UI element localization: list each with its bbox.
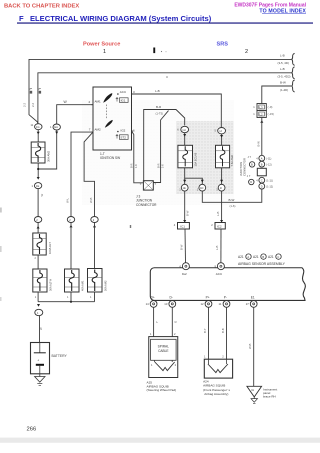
svg-text:IH: IH <box>251 388 254 392</box>
connector chain1 lower oval <box>34 217 41 223</box>
svg-text:W-B: W-B <box>89 197 93 203</box>
junction connector stack circle A <box>256 155 271 161</box>
svg-text:CONNECTOR: CONNECTOR <box>136 203 157 207</box>
node battery bus junction <box>70 301 72 303</box>
svg-text:( -9): ( -9) <box>268 105 273 109</box>
arrow up into L2 <box>260 120 263 123</box>
svg-text:W: W <box>64 100 68 104</box>
svg-text:(1-4D): (1-4D) <box>280 88 288 92</box>
splice symbol on left wire 1 <box>29 88 32 89</box>
arrow into H-fuse <box>37 132 40 135</box>
svg-text:+: + <box>37 359 39 363</box>
bus line 2 <box>38 73 291 124</box>
svg-text:A21: A21 <box>253 255 259 259</box>
junction connector stack circle B <box>259 161 272 167</box>
J/B output circle 1D <box>197 184 206 191</box>
bus 3 right continuation hook <box>292 80 295 92</box>
splice symbol on left wire 2 <box>38 88 41 89</box>
connector 1H into J/B <box>177 126 188 132</box>
svg-text:brace RH: brace RH <box>263 395 276 399</box>
ignition contact 2 (AM2) <box>105 120 113 128</box>
wire 1H to fuse ECU-B <box>184 133 186 146</box>
svg-text:14: 14 <box>146 302 150 306</box>
svg-text:B: B <box>262 255 264 259</box>
svg-text:L-B: L-B <box>216 212 220 216</box>
svg-text:A: A <box>247 255 249 259</box>
svg-text:2: 2 <box>222 355 224 359</box>
svg-text:15A ECU-B: 15A ECU-B <box>193 153 197 167</box>
arrow into battery connector <box>37 304 40 307</box>
svg-text:Y: Y <box>155 321 159 323</box>
svg-text:30A ALT-H: 30A ALT-H <box>49 279 53 291</box>
node A junction dot <box>37 168 39 170</box>
svg-text:C: C <box>277 255 279 259</box>
svg-text:IC2: IC2 <box>217 225 222 229</box>
svg-text:BACK TO CHAPTER INDEX: BACK TO CHAPTER INDEX <box>4 4 79 10</box>
svg-text:1E: 1E <box>183 186 186 190</box>
svg-text:SPIRAL: SPIRAL <box>158 344 170 348</box>
bottom scan shadow strip <box>0 438 320 443</box>
bus line 1 <box>29 59 291 123</box>
svg-text:AM1: AM1 <box>95 100 102 104</box>
wire 1E down to connector IC1 <box>184 191 186 222</box>
svg-text:1-6: 1-6 <box>161 164 165 168</box>
ignition contact 1 (AM1) <box>103 93 112 103</box>
connector chain3 oval <box>91 217 98 223</box>
connector L3 <box>253 104 272 111</box>
faint scan speckle <box>82 100 234 205</box>
wire 1G to H-fuse <box>37 130 39 142</box>
svg-text:L2: L2 <box>260 113 264 117</box>
svg-text:2: 2 <box>175 363 177 367</box>
wire B-W lower run <box>202 189 261 202</box>
svg-text:1E: 1E <box>36 184 39 188</box>
svg-text:A: A <box>261 156 263 160</box>
wire E1 to ground <box>253 307 255 386</box>
svg-text:12: 12 <box>201 302 205 306</box>
svg-text:F ELECTRICAL WIRING DIAGRAM: F ELECTRICAL WIRING DIAGRAM (System Circ… <box>19 14 212 23</box>
spiral cable / squib A25 outer box <box>149 337 178 378</box>
svg-text:EA: EA <box>54 125 58 129</box>
svg-text:1: 1 <box>103 49 106 55</box>
svg-text:AIRBAG SENSOR ASSEMBLY: AIRBAG SENSOR ASSEMBLY <box>238 262 286 266</box>
svg-text:1-6: 1-6 <box>134 164 138 168</box>
fuse 15A ECU-B <box>178 145 197 168</box>
svg-text:(1-T5): (1-T5) <box>156 112 164 116</box>
svg-text:27: 27 <box>246 302 250 306</box>
svg-text:B-W: B-W <box>229 198 235 202</box>
svg-text:D-: D- <box>170 296 173 300</box>
connector EA <box>50 124 60 130</box>
svg-text:J 7: J 7 <box>247 174 251 178</box>
wire chain1 W <box>37 189 39 217</box>
wire between chain1 fuses <box>37 255 39 269</box>
svg-text:G: G <box>174 321 178 323</box>
svg-text:(3-5, 4D2): (3-5, 4D2) <box>278 75 291 79</box>
svg-text:1: 1 <box>204 355 206 359</box>
bus 2 right continuation hook <box>292 67 295 79</box>
svg-text:B-W: B-W <box>186 210 190 216</box>
J7 circle D <box>247 174 254 185</box>
svg-text:E1: E1 <box>251 296 255 300</box>
svg-text:(-12): (-12) <box>266 164 271 167</box>
fuse 7.5A AM2 <box>216 145 234 168</box>
arrow below EA <box>55 132 58 135</box>
wire D- to spiral cable <box>171 307 173 336</box>
svg-text:CONNECTOR: CONNECTOR <box>243 158 247 176</box>
fusible link 40A AM1 <box>65 269 85 292</box>
svg-text:B-Y: B-Y <box>203 328 207 333</box>
arrow into chain2 oval <box>70 225 73 228</box>
connector 1E <box>32 183 42 189</box>
wire chain2 to fuse <box>70 223 72 270</box>
svg-text:1D: 1D <box>200 186 203 190</box>
wire chain3 to fuse <box>94 223 96 269</box>
svg-text:2-2: 2-2 <box>31 103 35 107</box>
svg-text:W-B: W-B <box>248 343 252 349</box>
junction connector stack circle D <box>259 183 273 189</box>
svg-text:B-B: B-B <box>221 328 225 333</box>
svg-text:P-: P- <box>224 296 227 300</box>
wires from fuse ECU-B to output circles <box>184 168 186 185</box>
connector L2 <box>253 111 274 118</box>
ignition switch box 1-T <box>89 87 136 150</box>
svg-text:B-W: B-W <box>256 141 260 147</box>
J7 circle B <box>248 155 255 167</box>
wire IC2 to ACC pin <box>220 229 222 263</box>
junction connector stack box <box>257 168 266 176</box>
fusible link 50A AM2 <box>88 269 108 293</box>
wire P+ to squib A24 <box>208 307 210 359</box>
svg-text:(-11): (-11) <box>266 158 271 161</box>
J/B output circle 1E <box>179 184 188 191</box>
svg-text:2: 2 <box>35 257 37 260</box>
airbag sensor assembly box <box>150 268 305 301</box>
wire B-R with label <box>144 110 185 181</box>
wire J3 branch up <box>153 111 168 183</box>
svg-text:B-W: B-W <box>179 244 183 250</box>
svg-text:J 7: J 7 <box>248 155 252 159</box>
IG1 terminal box inside ignition SW <box>116 93 128 102</box>
svg-text:1G: 1G <box>36 125 39 129</box>
svg-text:P+: P+ <box>206 296 210 300</box>
J/B No.2 shaded block <box>176 121 234 194</box>
zone marker bar <box>153 48 155 54</box>
svg-text:IG1: IG1 <box>121 99 126 103</box>
fusible link 30A AM2 H-fuse <box>31 142 50 163</box>
spiral cable inner box <box>151 339 177 360</box>
svg-text:IC1: IC1 <box>180 225 185 229</box>
svg-text:B: B <box>261 162 263 166</box>
squib element A25 <box>151 360 177 370</box>
tiny scan artifacts <box>166 76 168 78</box>
svg-text:A21: A21 <box>268 255 274 259</box>
squib A24 box <box>204 359 232 378</box>
sensor box bottom pin E1 <box>246 296 257 308</box>
svg-text:1: 1 <box>35 295 37 299</box>
ground symbol below triangle <box>251 397 258 404</box>
svg-text:2: 2 <box>211 223 213 227</box>
wire to battery <box>39 316 41 343</box>
svg-text:B-R: B-R <box>130 163 134 168</box>
svg-text:1: 1 <box>90 295 92 299</box>
svg-text:(1-12): (1-12) <box>266 186 273 189</box>
fusible link ALT lower <box>33 269 53 292</box>
svg-text:40A AM1: 40A AM1 <box>81 280 85 291</box>
svg-text:L-B: L-B <box>280 54 285 58</box>
svg-text:AM2: AM2 <box>95 128 102 132</box>
wire AM2 to chain2 <box>71 132 93 217</box>
svg-text:1H: 1H <box>182 128 185 132</box>
wire and up-arrow into fuse 100A ALT <box>37 223 39 234</box>
connector 1J into J/B <box>215 128 226 134</box>
svg-text:L3: L3 <box>260 106 264 110</box>
svg-text:1: 1 <box>50 125 52 129</box>
svg-text:2: 2 <box>245 49 248 55</box>
svg-text:D: D <box>250 180 252 184</box>
arrow into connector 1E <box>37 177 40 180</box>
battery connector oval <box>35 309 43 315</box>
svg-text:ST2: ST2 <box>120 136 126 140</box>
svg-text:Airbag Assembly): Airbag Assembly) <box>204 392 228 396</box>
svg-text:B: B <box>251 163 253 167</box>
svg-text:1: 1 <box>67 295 69 299</box>
A21 connector codes <box>238 254 281 259</box>
svg-text:1I: 1I <box>220 186 222 190</box>
svg-text:D: D <box>261 184 263 188</box>
svg-text:2: 2 <box>174 332 176 336</box>
pin ACC on sensor box <box>215 263 225 277</box>
svg-text:(Steering Wheel Pad): (Steering Wheel Pad) <box>147 388 177 392</box>
svg-text:C: C <box>261 178 263 182</box>
svg-text:100A ALT: 100A ALT <box>48 242 52 254</box>
svg-text:1: 1 <box>150 332 152 336</box>
svg-text:IGNITION SW: IGNITION SW <box>100 156 120 160</box>
sensor box bottom pin D- <box>164 296 175 308</box>
svg-text:4: 4 <box>256 157 258 160</box>
wire P- to squib A24 <box>226 307 228 359</box>
wire 1I down to connector IC2 <box>221 191 223 222</box>
wire AM1 from ignition SW <box>57 105 93 124</box>
in-line connector IC1 <box>174 223 190 230</box>
pin ticks on ignition SW box <box>91 104 93 106</box>
wire to node A <box>37 163 39 178</box>
fusible link 100A ALT <box>33 233 52 255</box>
svg-text:11: 11 <box>219 302 222 306</box>
connector 1G <box>31 123 43 130</box>
wire 1J to fuse AM2 <box>221 134 223 145</box>
junction connector J3 <box>140 181 157 190</box>
wire IC1 to IG2 pin <box>184 229 187 263</box>
svg-text:4: 4 <box>256 179 258 182</box>
pin IG2 on sensor box <box>180 263 190 277</box>
svg-text:2-2: 2-2 <box>23 103 27 107</box>
connector chain2 oval <box>67 217 74 223</box>
wire EA down to junction <box>38 130 57 169</box>
svg-text:11: 11 <box>31 123 34 127</box>
svg-text:1: 1 <box>253 112 255 116</box>
svg-text:W: W <box>40 194 44 197</box>
svg-text:D+: D+ <box>151 296 155 300</box>
svg-text:W-L: W-L <box>65 197 69 203</box>
ground below battery <box>35 374 45 386</box>
wire from fuse AM2 to output circle <box>221 168 223 185</box>
svg-text:4: 4 <box>174 223 176 227</box>
svg-text:ACC: ACC <box>120 90 127 94</box>
svg-text:L-B: L-B <box>280 67 285 71</box>
svg-text:L-B: L-B <box>215 246 219 250</box>
svg-text:1: 1 <box>32 184 34 188</box>
svg-text:266: 266 <box>27 427 37 433</box>
bus 1 right continuation hook <box>292 53 295 65</box>
junction connector stack circle C <box>256 177 273 183</box>
svg-text:13: 13 <box>164 302 168 306</box>
sensor box bottom pin P- <box>219 296 230 308</box>
svg-text:3: 3 <box>133 90 135 94</box>
svg-text:1: 1 <box>253 105 255 109</box>
title underline rule <box>17 22 313 23</box>
ST2 terminal box inside ignition SW <box>116 131 128 140</box>
svg-text:50A AM2: 50A AM2 <box>104 280 108 291</box>
svg-text:B-R: B-R <box>156 163 160 168</box>
svg-text:ACC: ACC <box>216 272 223 276</box>
svg-text:CABLE: CABLE <box>158 349 168 353</box>
svg-text:BATTERY: BATTERY <box>52 354 68 358</box>
wire ACC L-B <box>132 94 222 127</box>
svg-text:1: 1 <box>151 363 153 367</box>
svg-text:IG2: IG2 <box>121 128 126 132</box>
wire chain3 to bus <box>94 292 96 302</box>
wire B-W down from L2 <box>261 118 263 156</box>
wire chain1 to battery bus <box>37 292 39 302</box>
svg-text:IG2: IG2 <box>182 272 187 276</box>
svg-text:W: W <box>39 327 43 330</box>
svg-text:(1-6): (1-6) <box>230 204 236 208</box>
arrow into chain3 oval <box>93 225 96 228</box>
wire AM2 to chain3 <box>84 132 94 217</box>
wire IG2 down to J3 <box>132 131 144 183</box>
svg-text:B-R: B-R <box>156 105 162 109</box>
wire chain2 to bus <box>70 292 72 302</box>
svg-text:7.5A AM2: 7.5A AM2 <box>230 154 234 166</box>
J/B output circle 1I <box>216 184 225 191</box>
sensor box bottom pin D+ <box>146 296 157 308</box>
wire D+ to spiral cable <box>153 307 155 336</box>
battery bus wire <box>38 301 94 303</box>
svg-text:( -15): ( -15) <box>268 112 274 116</box>
battery <box>31 343 68 374</box>
svg-text:SRS: SRS <box>217 42 229 48</box>
ground triangle IH <box>247 386 262 397</box>
svg-text:Power Source: Power Source <box>83 42 120 48</box>
svg-text:(3-5, 4D): (3-5, 4D) <box>278 61 289 65</box>
bus line 3 B-W <box>262 86 291 104</box>
ignition contact link dashed <box>105 105 107 120</box>
left edge scan smudges <box>0 208 2 213</box>
svg-text:A21: A21 <box>238 255 244 259</box>
svg-text:30A AM2: 30A AM2 <box>47 150 51 162</box>
svg-text:L-B: L-B <box>155 89 160 93</box>
svg-text:(1-11): (1-11) <box>266 180 273 183</box>
svg-text:B-W: B-W <box>280 80 286 84</box>
sensor box bottom pin P+ <box>201 296 212 308</box>
in-line connector IC2 <box>211 223 225 230</box>
